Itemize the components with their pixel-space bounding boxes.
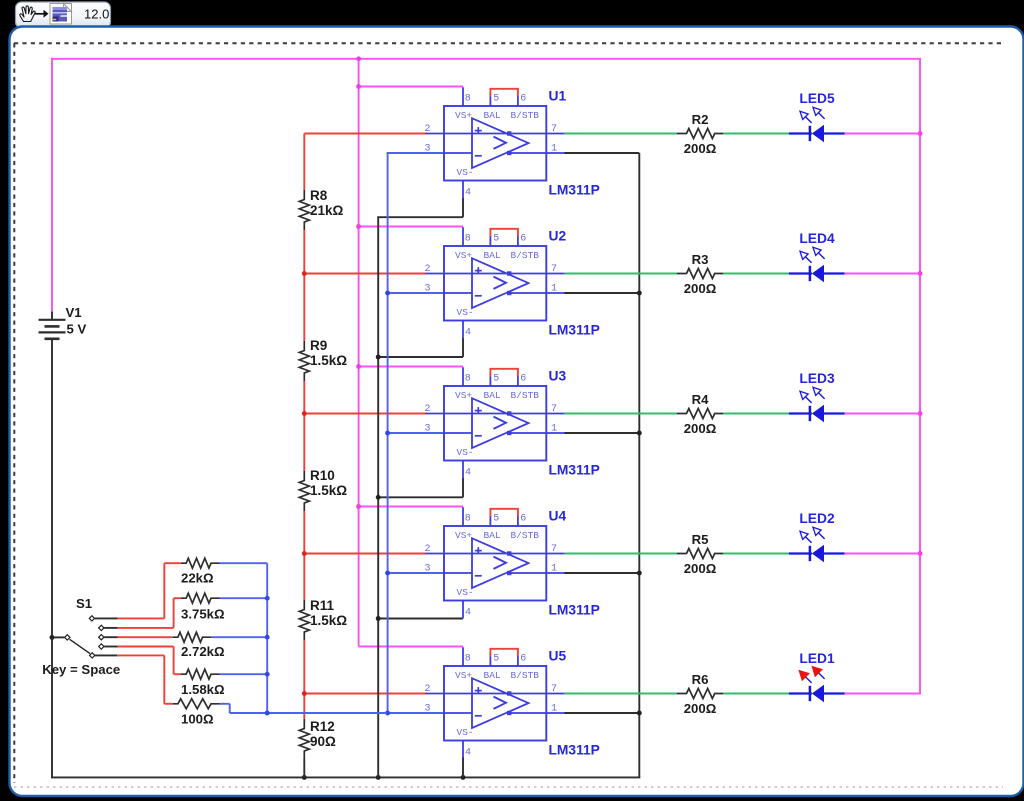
svg-text:VS+: VS+ — [455, 390, 472, 401]
svg-text:VS+: VS+ — [455, 530, 472, 541]
wire ladder segment 5 — [303, 640, 305, 719]
node magenta junction LED4 row — [918, 271, 923, 276]
document thumbnail icon — [50, 4, 72, 25]
wire U4 output (green) — [565, 553, 677, 555]
svg-text:VS+: VS+ — [455, 110, 472, 121]
svg-text:7: 7 — [551, 684, 557, 695]
svg-text:6: 6 — [520, 654, 526, 665]
node ladder tap 3 — [302, 551, 307, 556]
svg-text:B/STB: B/STB — [511, 250, 540, 261]
wire U2 pin3 stub (blue) — [387, 292, 444, 294]
svg-text:BAL: BAL — [484, 390, 501, 401]
resistor R11 — [299, 598, 347, 640]
svg-text:7: 7 — [551, 264, 557, 275]
wire LED1 to VCC (magenta) — [845, 693, 921, 695]
wire LED3 to VCC (magenta) — [845, 413, 920, 415]
svg-text:4: 4 — [465, 748, 471, 759]
LED LED4 — [789, 231, 845, 282]
node bank bus 2.72k — [265, 635, 270, 640]
wire bank bus vertical (blue) — [266, 563, 268, 713]
node ladder tap 4 — [302, 691, 307, 696]
svg-text:LM311P: LM311P — [549, 743, 600, 758]
node ladder tap 2 — [302, 411, 307, 416]
node magenta junction LED3 row — [918, 411, 923, 416]
svg-text:1.58kΩ: 1.58kΩ — [181, 682, 225, 697]
svg-text:VS-: VS- — [457, 727, 474, 738]
svg-text:3: 3 — [425, 564, 431, 575]
wire VCC top rail (magenta) — [51, 58, 921, 60]
resistor R2 200ohm — [677, 112, 723, 156]
svg-text:LED3: LED3 — [799, 371, 835, 386]
wire U1 pin4 horizontal — [377, 216, 463, 218]
wire U5 output (green) — [565, 693, 677, 695]
svg-text:U5: U5 — [549, 649, 567, 664]
svg-text:U2: U2 — [549, 229, 567, 244]
resistor 2.72k — [173, 632, 225, 659]
svg-text:1: 1 — [551, 144, 557, 155]
svg-text:6: 6 — [520, 374, 526, 385]
node rail R12 — [302, 775, 307, 780]
svg-text:Key = Space: Key = Space — [42, 662, 120, 677]
svg-text:R3: R3 — [692, 252, 709, 267]
wire U1 pin1 to bus — [564, 152, 639, 154]
node pin1 bus junction U5 — [637, 711, 642, 716]
svg-text:5: 5 — [493, 234, 499, 245]
svg-text:1: 1 — [551, 424, 557, 435]
toolbar tab — [16, 2, 111, 28]
svg-text:6: 6 — [520, 514, 526, 525]
svg-text:1.5kΩ: 1.5kΩ — [310, 483, 347, 498]
svg-text:1.5kΩ: 1.5kΩ — [310, 613, 347, 628]
svg-text:8: 8 — [465, 374, 471, 385]
LED LED2 — [789, 511, 845, 562]
op-amp comparator U2 (LM311P) — [425, 227, 600, 357]
resistor R10 — [299, 468, 347, 511]
svg-text:12.0: 12.0 — [84, 6, 109, 21]
svg-text:V1: V1 — [66, 305, 82, 320]
LED LED5 — [789, 91, 845, 142]
svg-text:LM311P: LM311P — [549, 183, 600, 198]
node pin4 bus junction U2 — [376, 355, 381, 360]
resistor 1.58k — [181, 669, 225, 697]
svg-text:B/STB: B/STB — [511, 670, 540, 681]
wire VS+ pin8 branch U1 (magenta) — [359, 86, 463, 88]
svg-text:7: 7 — [551, 544, 557, 555]
sheet dashed border left — [13, 43, 15, 783]
svg-text:200Ω: 200Ω — [684, 701, 717, 716]
wire U3 pin1 to bus — [564, 432, 639, 434]
svg-text:6: 6 — [520, 234, 526, 245]
svg-text:R8: R8 — [310, 188, 328, 203]
svg-text:4: 4 — [465, 468, 471, 479]
node magenta junction U2 branch — [356, 224, 361, 229]
svg-text:BAL: BAL — [484, 250, 501, 261]
node pin3 bus junction U2 — [385, 291, 390, 296]
wire VCC left drop to V1 — [51, 58, 53, 312]
svg-text:LED5: LED5 — [799, 91, 835, 106]
LED LED1 — [789, 651, 845, 702]
wire U4 pin1 to bus — [564, 572, 639, 574]
node rail U5 pin4 — [461, 775, 466, 780]
node magenta junction LED5 row — [918, 131, 923, 136]
wire VS+ pin8 branch U5 (magenta) — [359, 646, 463, 648]
wire pin4 bus vertical (black) — [377, 217, 379, 777]
wire tap to U2 pin2 (red) — [304, 273, 426, 275]
svg-text:U4: U4 — [549, 509, 567, 524]
node magenta junction U4 branch — [356, 504, 361, 509]
wire LED5 to VCC (magenta) — [845, 133, 920, 135]
svg-text:R12: R12 — [310, 719, 335, 734]
svg-text:U3: U3 — [549, 369, 567, 384]
svg-text:LM311P: LM311P — [549, 463, 600, 478]
svg-text:R2: R2 — [692, 112, 709, 127]
svg-text:LED2: LED2 — [799, 511, 835, 526]
wire U4 pin3 stub (blue) — [387, 572, 444, 574]
wire VCC right drop to LED column — [919, 59, 921, 694]
svg-text:90Ω: 90Ω — [310, 734, 336, 749]
svg-text:VS-: VS- — [457, 587, 474, 598]
op-amp comparator U3 (LM311P) — [425, 367, 600, 497]
wire S1 contact3 to 2.72k (black/red) — [104, 636, 117, 638]
wire U3 pin4 horizontal — [377, 496, 463, 498]
svg-text:8: 8 — [465, 234, 471, 245]
svg-text:LED4: LED4 — [799, 231, 835, 246]
svg-text:1: 1 — [551, 564, 557, 575]
resistor 100ohm — [173, 699, 220, 727]
wire bottom rail — [51, 776, 640, 778]
svg-text:S1: S1 — [76, 596, 92, 611]
node pin3 bus junction U3 — [385, 431, 390, 436]
wire ladder segment top — [303, 134, 305, 191]
svg-text:B/STB: B/STB — [511, 390, 540, 401]
svg-text:LED1: LED1 — [799, 651, 835, 666]
svg-text:2: 2 — [425, 124, 431, 135]
svg-text:R6: R6 — [692, 672, 709, 687]
svg-text:BAL: BAL — [484, 670, 501, 681]
resistor 22k — [181, 558, 220, 586]
op-amp comparator U1 (LM311P) — [425, 87, 600, 217]
svg-text:4: 4 — [465, 608, 471, 619]
svg-text:3: 3 — [425, 284, 431, 295]
wire 100ohm output (blue) — [220, 703, 230, 705]
svg-text:1: 1 — [551, 284, 557, 295]
switch S1 — [42, 596, 120, 677]
svg-text:VS-: VS- — [457, 167, 474, 178]
svg-text:VS+: VS+ — [455, 250, 472, 261]
svg-text:1.5kΩ: 1.5kΩ — [310, 353, 347, 368]
svg-text:3.75kΩ: 3.75kΩ — [181, 607, 225, 622]
svg-text:8: 8 — [465, 654, 471, 665]
svg-text:6: 6 — [520, 94, 526, 105]
svg-text:5: 5 — [493, 654, 499, 665]
wire U5 pin1 to bus — [564, 712, 639, 714]
node bank bus bottom — [265, 711, 270, 716]
wire U3 output (green) — [565, 413, 677, 415]
svg-text:R5: R5 — [692, 532, 709, 547]
op-amp comparator U5 (LM311P) — [425, 647, 600, 777]
wire U2 output (green) — [565, 273, 677, 275]
node pin3 bus junction U4 — [385, 571, 390, 576]
svg-text:BAL: BAL — [484, 110, 501, 121]
svg-text:200Ω: 200Ω — [684, 141, 717, 156]
wire VCC branch vertical — [358, 59, 360, 647]
wire 22k to bus (blue) — [220, 562, 268, 564]
wire ladder segment 4 — [303, 511, 305, 600]
svg-text:R4: R4 — [692, 392, 710, 407]
wire R5 to LED2 (green) — [723, 553, 789, 555]
node bank bus 1.58k — [265, 672, 270, 677]
wire pin1 bus vertical (black) — [638, 153, 640, 777]
hand pan icon — [20, 6, 35, 22]
svg-text:200Ω: 200Ω — [684, 561, 717, 576]
resistor R5 200ohm — [677, 532, 723, 576]
sheet dashed border bottom — [14, 786, 1003, 788]
node VCC branch on top rail — [356, 56, 361, 61]
svg-text:5: 5 — [493, 374, 499, 385]
resistor R6 200ohm — [677, 672, 723, 716]
wire tap to U1 pin2 (red) — [304, 133, 426, 135]
wire 3.75k to bus (blue) — [220, 597, 268, 599]
node pin1 bus junction U3 — [637, 431, 642, 436]
svg-text:100Ω: 100Ω — [181, 711, 214, 726]
wire R6 to LED1 (green) — [723, 693, 789, 695]
wire R12 to rail — [303, 759, 305, 777]
svg-text:U1: U1 — [549, 89, 567, 104]
wire S1 contact5 to 100ohm (black/red) — [95, 654, 117, 656]
svg-text:2: 2 — [425, 264, 431, 275]
svg-text:1: 1 — [551, 704, 557, 715]
wire 1.58k to bus (blue) — [220, 673, 268, 675]
svg-text:R9: R9 — [310, 338, 327, 353]
svg-text:8: 8 — [465, 94, 471, 105]
resistor 3.75k — [181, 593, 225, 622]
svg-text:3: 3 — [425, 424, 431, 435]
node magenta junction U3 branch — [356, 364, 361, 369]
svg-text:7: 7 — [551, 124, 557, 135]
svg-text:LM311P: LM311P — [549, 603, 600, 618]
wire U2 pin4 horizontal — [377, 356, 463, 358]
wire S1 contact2 to 3.75k (black/red) — [104, 627, 117, 629]
resistor R4 200ohm — [677, 392, 723, 436]
svg-text:VS-: VS- — [457, 447, 474, 458]
resistor R8 — [299, 188, 343, 230]
node bank bus 3.75k — [265, 596, 270, 601]
svg-text:R11: R11 — [310, 598, 335, 613]
resistor R9 — [299, 338, 347, 381]
node ladder tap 1 — [302, 271, 307, 276]
node pin4 bus junction U3 — [376, 495, 381, 500]
svg-text:22kΩ: 22kΩ — [181, 571, 214, 586]
svg-text:200Ω: 200Ω — [684, 281, 717, 296]
node rail black vertical — [376, 775, 381, 780]
wire U3 pin3 stub (blue) — [387, 432, 444, 434]
node pin1 bus junction U2 — [637, 291, 642, 296]
svg-text:8: 8 — [465, 514, 471, 525]
node pin1 bus junction U4 — [637, 571, 642, 576]
svg-text:LM311P: LM311P — [549, 323, 600, 338]
wire pin3 bus vertical (blue) — [387, 153, 389, 713]
wire U5 pin3 stub (blue) — [230, 712, 444, 714]
wire R3 to LED4 (green) — [723, 273, 789, 275]
wire VS+ pin8 branch U3 (magenta) — [359, 366, 463, 368]
wire S1 contact1 to 22k (black/red) — [95, 617, 118, 619]
svg-text:7: 7 — [551, 404, 557, 415]
svg-text:VS+: VS+ — [455, 670, 472, 681]
svg-text:4: 4 — [465, 188, 471, 199]
wire VS+ pin8 branch U4 (magenta) — [359, 506, 463, 508]
wire R4 to LED3 (green) — [723, 413, 789, 415]
wire 2.72k to bus (blue) — [211, 636, 267, 638]
resistor R12 — [299, 719, 336, 759]
svg-text:VS-: VS- — [457, 307, 474, 318]
arrow icon — [35, 10, 49, 18]
wire VS+ pin8 branch U2 (magenta) — [359, 226, 463, 228]
node pin3 bus bottom junction — [385, 711, 390, 716]
node magenta junction LED2 row — [918, 551, 923, 556]
wire tap to U3 pin2 (red) — [304, 413, 426, 415]
svg-text:21kΩ: 21kΩ — [310, 203, 344, 218]
svg-text:4: 4 — [465, 328, 471, 339]
wire U1 output (green) — [565, 133, 677, 135]
LED LED3 — [789, 371, 845, 422]
resistor R3 200ohm — [677, 252, 723, 296]
svg-text:200Ω: 200Ω — [684, 421, 717, 436]
node magenta junction U1 branch — [356, 84, 361, 89]
op-amp comparator U4 (LM311P) — [425, 507, 600, 618]
wire R2 to LED5 (green) — [723, 133, 789, 135]
wire U2 pin1 to bus — [564, 292, 639, 294]
node S1 tap on V1 rail — [50, 635, 55, 640]
svg-text:2: 2 — [425, 404, 431, 415]
svg-text:R10: R10 — [310, 468, 335, 483]
svg-text:5: 5 — [493, 514, 499, 525]
svg-text:5: 5 — [493, 94, 499, 105]
wire S1 contact4 to 1.58k (black/red) — [104, 646, 117, 648]
svg-text:2: 2 — [425, 544, 431, 555]
wire tap to U4 pin2 (red) — [304, 553, 426, 555]
wire LED2 to VCC (magenta) — [845, 553, 920, 555]
wire U4 pin4 horizontal — [377, 618, 463, 620]
battery V1 — [39, 305, 87, 339]
svg-text:3: 3 — [425, 144, 431, 155]
svg-text:2: 2 — [425, 684, 431, 695]
svg-text:B/STB: B/STB — [511, 530, 540, 541]
svg-text:5 V: 5 V — [67, 321, 87, 336]
svg-text:B/STB: B/STB — [511, 110, 540, 121]
wire tap to U5 pin2 (red) — [304, 693, 426, 695]
sheet dashed border top — [14, 42, 1003, 44]
wire LED4 to VCC (magenta) — [845, 273, 920, 275]
wire V1 negative lead down — [51, 339, 53, 778]
svg-text:2.72kΩ: 2.72kΩ — [181, 644, 225, 659]
svg-text:3: 3 — [425, 704, 431, 715]
wire U1 pin3 stub (blue) — [387, 152, 444, 154]
node pin4 bus junction U4 — [376, 616, 381, 621]
wire ladder segment 2 — [303, 230, 305, 341]
wire ladder segment 3 — [303, 381, 305, 471]
svg-text:BAL: BAL — [484, 530, 501, 541]
